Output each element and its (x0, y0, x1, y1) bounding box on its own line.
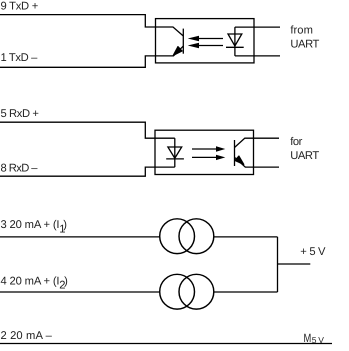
svg-text:M: M (304, 331, 312, 345)
svg-text:4 20 mA + (I: 4 20 mA + (I (1, 275, 60, 287)
svg-text:): ) (64, 275, 68, 287)
svg-text:3 20 mA + (I: 3 20 mA + (I (1, 219, 60, 231)
svg-text:8 RxD –: 8 RxD – (1, 162, 39, 174)
svg-text:UART: UART (290, 150, 319, 162)
svg-text:for: for (290, 136, 302, 148)
svg-text:): ) (63, 219, 67, 231)
svg-text:1 TxD –: 1 TxD – (1, 52, 39, 64)
svg-text:from: from (290, 25, 313, 37)
svg-text:V: V (318, 335, 324, 345)
svg-text:+ 5 V: + 5 V (300, 246, 326, 258)
svg-text:5 RxD +: 5 RxD + (1, 108, 39, 120)
svg-text:5: 5 (312, 335, 317, 345)
svg-text:UART: UART (290, 38, 319, 50)
svg-text:2 20 mA –: 2 20 mA – (1, 330, 53, 342)
svg-text:9 TxD +: 9 TxD + (1, 0, 39, 12)
